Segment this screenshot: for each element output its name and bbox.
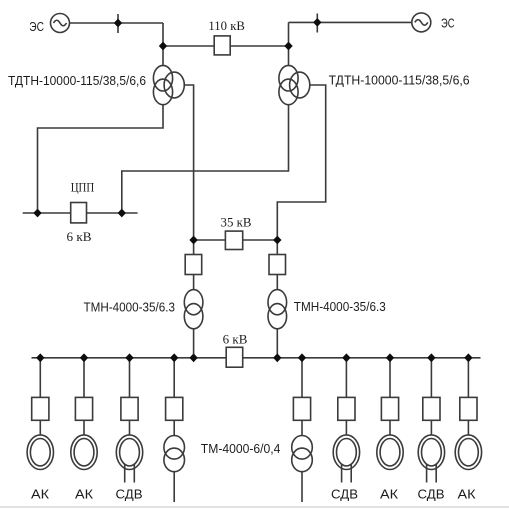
svg-text:35 кВ: 35 кВ bbox=[221, 215, 252, 230]
svg-text:6 кВ: 6 кВ bbox=[223, 332, 248, 347]
svg-text:6 кВ: 6 кВ bbox=[67, 229, 92, 244]
svg-text:ТМН-4000-35/6.3: ТМН-4000-35/6.3 bbox=[294, 299, 386, 314]
svg-text:АК: АК bbox=[31, 487, 49, 502]
svg-text:ЭС: ЭС bbox=[29, 19, 44, 34]
svg-text:ТМ-4000-6/0,4: ТМ-4000-6/0,4 bbox=[201, 441, 281, 456]
svg-text:ЭС: ЭС bbox=[441, 16, 455, 31]
svg-text:ТДТН-10000-115/38,5/6,6: ТДТН-10000-115/38,5/6,6 bbox=[329, 73, 470, 88]
svg-text:АК: АК bbox=[380, 487, 398, 502]
svg-text:110 кВ: 110 кВ bbox=[208, 18, 245, 33]
svg-text:ЦПП: ЦПП bbox=[71, 180, 95, 195]
svg-text:СДВ: СДВ bbox=[331, 487, 358, 502]
svg-text:ТДТН-10000-115/38,5/6,6: ТДТН-10000-115/38,5/6,6 bbox=[8, 73, 146, 88]
svg-text:СДВ: СДВ bbox=[418, 487, 445, 502]
svg-text:АК: АК bbox=[75, 487, 93, 502]
svg-text:СДВ: СДВ bbox=[116, 487, 143, 502]
svg-text:АК: АК bbox=[458, 487, 476, 502]
svg-text:ТМН-4000-35/6.3: ТМН-4000-35/6.3 bbox=[84, 300, 176, 315]
